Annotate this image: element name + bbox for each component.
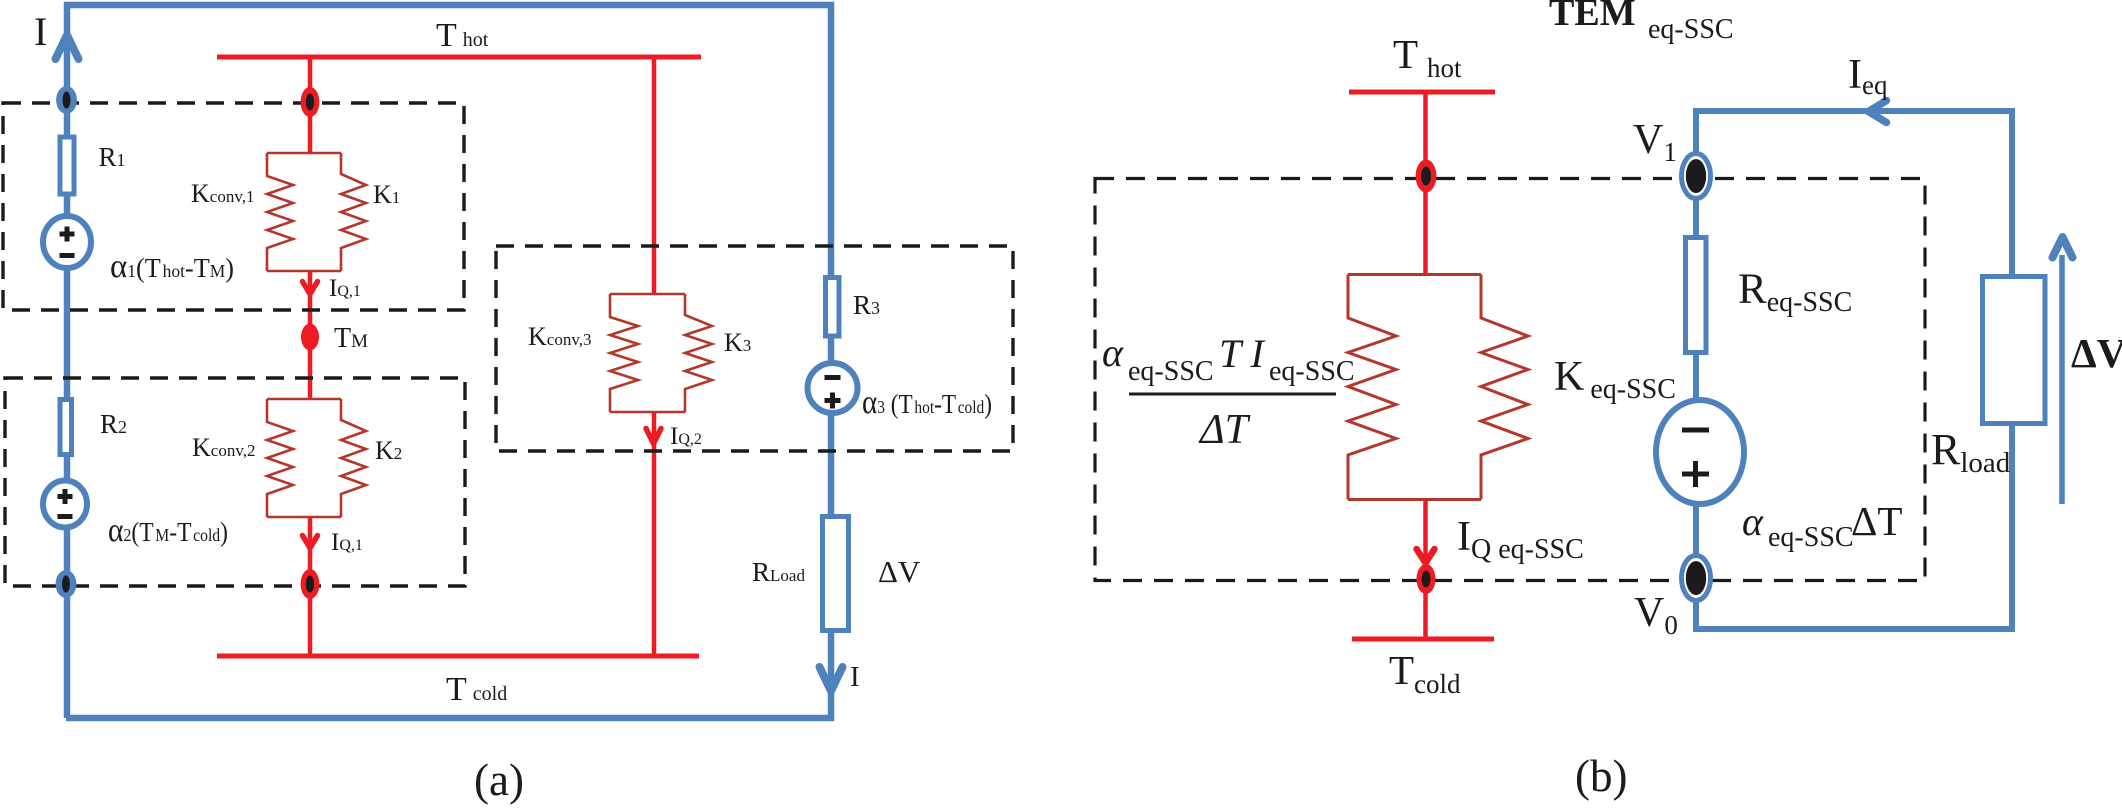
svg-text:Kconv,1: Kconv,1 (191, 179, 254, 208)
svg-text:R1: R1 (99, 142, 126, 172)
svg-text:K1: K1 (373, 180, 400, 209)
wire blue outer loop (a) (66, 5, 831, 718)
resistor Req-SSC (1686, 238, 1707, 353)
dashed box (b) (1095, 179, 1925, 581)
svg-text:Ieq: Ieq (1848, 52, 1888, 100)
wire red Thot bus (a) (217, 55, 701, 60)
svg-text:ΔT: ΔT (1198, 407, 1251, 453)
arrow Ieq left (1869, 101, 1887, 123)
wire red Tcold bus (a) (217, 654, 699, 659)
wire red Tcold bar (b) (1352, 637, 1494, 642)
svg-text:ΔV: ΔV (878, 554, 921, 589)
svg-text:eq-SSC: eq-SSC (1128, 356, 1214, 387)
svg-text:V1: V1 (1633, 117, 1677, 167)
svg-text:Thot: Thot (436, 17, 489, 54)
node V1 (1682, 154, 1711, 199)
arrow IQ2 down (646, 429, 661, 444)
wire blue loop (b) (1696, 111, 2012, 629)
svg-text:V0: V0 (1634, 590, 1678, 640)
K block b (Keq-SSC) (1348, 275, 1528, 500)
arrow IQ1 lower down (303, 536, 318, 549)
svg-text:I: I (34, 9, 47, 54)
source V2a (alpha2) (43, 481, 87, 528)
wire red branch K1/K2 (308, 57, 313, 656)
K block 2 (Kconv,2 / K2) (267, 399, 366, 517)
resistor R3 (826, 278, 840, 337)
node V0 (1682, 556, 1711, 601)
svg-text:eq-SSC: eq-SSC (1768, 522, 1854, 553)
arrow IQ eq-SSC down (1417, 549, 1435, 563)
svg-text:Tcold: Tcold (1389, 647, 1461, 699)
svg-text:TM: TM (334, 323, 368, 354)
node blue bottom-left (56, 570, 77, 598)
svg-text:TEM: TEM (1549, 0, 1636, 34)
svg-text:Kconv,2: Kconv,2 (192, 433, 255, 462)
svg-text:Kconv,3: Kconv,3 (528, 322, 591, 351)
svg-text:Tcold: Tcold (446, 671, 507, 708)
svg-text:(b): (b) (1575, 751, 1627, 801)
source Vb (alpha eq-SSC deltaT) (1656, 400, 1744, 504)
node red bottom (branch K2) (301, 569, 320, 599)
dashed box 1 (3, 103, 464, 310)
svg-text:Thot: Thot (1393, 31, 1462, 83)
svg-text:IQ eq-SSC: IQ eq-SSC (1457, 514, 1584, 565)
svg-text:ΔT: ΔT (1851, 498, 1902, 544)
svg-text:RLoad: RLoad (752, 557, 805, 587)
dashed box 3 (496, 246, 1013, 451)
node red top (b) (1416, 160, 1437, 193)
svg-text:α1(Thot-TM): α1(Thot-TM) (110, 248, 234, 285)
source V3a (alpha3) (808, 363, 858, 413)
arrow I down (a) (820, 667, 843, 691)
node red bottom (b) (1417, 564, 1436, 594)
svg-text:I: I (850, 661, 860, 693)
svg-text:IQ,1: IQ,1 (331, 529, 363, 556)
wire red Thot bar (b) (1349, 90, 1495, 95)
wire red branch K3 (652, 57, 657, 656)
svg-text:R3: R3 (853, 290, 880, 320)
svg-text:(a): (a) (474, 755, 524, 805)
wire deltaV line (b) (2059, 255, 2065, 504)
arrow deltaV up (b) (2053, 237, 2073, 258)
svg-text:eq-SSC: eq-SSC (1648, 14, 1734, 45)
svg-text:R2: R2 (100, 409, 127, 439)
node red top (Thot branch) (301, 87, 320, 117)
resistor RLoad (823, 517, 849, 631)
svg-text:IQ,2: IQ,2 (670, 423, 702, 450)
arrow I up (a) (56, 35, 79, 59)
resistor R2 (60, 400, 72, 455)
node blue top-left (56, 86, 77, 114)
K block 3 (Kconv,3 / K3) (610, 294, 712, 412)
dashed box 2 (5, 378, 465, 586)
K block 1 (Kconv,1 / K1) (267, 153, 366, 271)
svg-text:Keq-SSC: Keq-SSC (1554, 354, 1676, 405)
source V1a (alpha1) (43, 216, 91, 268)
svg-text:α3 (Thot-Tcold): α3 (Thot-Tcold) (862, 384, 992, 421)
resistor Rload (b) (1983, 277, 2046, 424)
svg-text:Rload: Rload (1931, 425, 2011, 479)
svg-text:α: α (1102, 330, 1124, 375)
svg-text:K3: K3 (724, 328, 751, 357)
arrow IQ1 down (303, 282, 318, 295)
svg-text:IQ,1: IQ,1 (329, 275, 361, 302)
svg-text:Req-SSC: Req-SSC (1738, 266, 1852, 318)
resistor R1 (60, 137, 74, 194)
svg-text:eq-SSC: eq-SSC (1269, 356, 1355, 387)
svg-text:T I: T I (1219, 331, 1266, 376)
fraction bar (1129, 393, 1336, 396)
svg-text:K2: K2 (375, 436, 402, 465)
svg-text:α2(TM-Tcold): α2(TM-Tcold) (108, 512, 228, 549)
svg-text:ΔV: ΔV (2071, 330, 2122, 376)
svg-text:α: α (1742, 499, 1764, 544)
node TM (301, 324, 319, 351)
wire red vertical (b) (1423, 92, 1428, 640)
